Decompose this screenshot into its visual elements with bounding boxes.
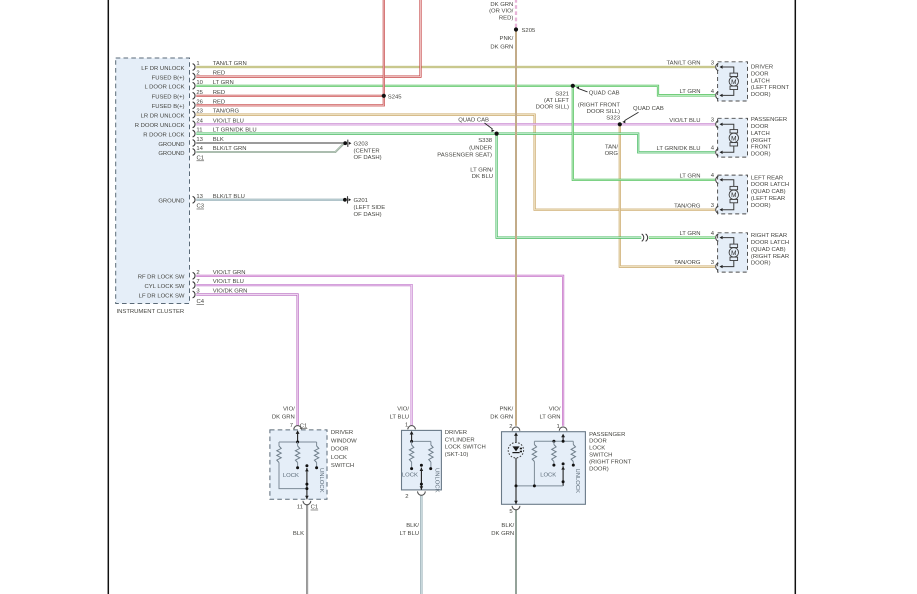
- switch3 resistor left: [532, 441, 536, 486]
- svg-text:DOOR LATCH: DOOR LATCH: [751, 182, 789, 188]
- svg-text:C1: C1: [311, 505, 319, 511]
- cluster pin 24 (R DOOR UNLOCK): [135, 118, 244, 129]
- wire TAN/ORG pin23 to left rear door latch pin3: [196, 115, 715, 210]
- switch3 internal circuit: [534, 434, 573, 443]
- label LT GRN/DK BLU vertical wire: [470, 167, 493, 179]
- switch1 pin 11 C1 bottom connector: [297, 501, 318, 511]
- svg-text:G203: G203: [354, 141, 369, 147]
- svg-text:OF DASH): OF DASH): [354, 212, 382, 218]
- svg-text:S338: S338: [478, 138, 492, 144]
- splice S245: [382, 94, 403, 101]
- svg-text:7: 7: [290, 423, 293, 429]
- cluster pin 10 (L DOOR LOCK): [144, 80, 233, 91]
- label BLK/DK GRN below switch3: [491, 523, 514, 537]
- svg-text:LR DR UNLOCK: LR DR UNLOCK: [141, 113, 185, 119]
- svg-text:SWITCH: SWITCH: [589, 453, 612, 459]
- svg-text:GROUND: GROUND: [158, 142, 184, 148]
- label BLK/LT BLU below switch2: [400, 523, 420, 537]
- svg-text:(OR VIO/: (OR VIO/: [489, 9, 514, 15]
- wire LT GRN splice S338 to inline connector: [497, 134, 642, 238]
- splice S323 (RIGHT FRONT DOOR SILL): [578, 102, 622, 126]
- svg-text:VIO/: VIO/: [397, 406, 409, 412]
- motor 3 name label: [751, 175, 789, 209]
- svg-text:11: 11: [297, 504, 303, 510]
- wire TAN/LT GRN pin1 to driver door latch pin3: [196, 66, 715, 68]
- svg-text:DOOR): DOOR): [751, 92, 771, 98]
- svg-text:(CENTER: (CENTER: [354, 148, 380, 154]
- svg-text:LATCH: LATCH: [751, 131, 770, 137]
- switch1 pin 7 C1 top connector: [290, 423, 308, 430]
- wire VIO/LT BLU pin7 C4 to driver cylinder lock switch pin1: [196, 285, 411, 426]
- wire RED pin25 to splice S245: [196, 95, 383, 97]
- svg-text:LT BLU: LT BLU: [400, 531, 419, 537]
- switch2 name label: [445, 430, 486, 458]
- svg-text:GROUND: GROUND: [158, 151, 184, 157]
- svg-text:UNLOCK: UNLOCK: [433, 468, 439, 493]
- svg-text:(RIGHT FRONT: (RIGHT FRONT: [589, 459, 632, 465]
- svg-text:LOCK SWITCH: LOCK SWITCH: [445, 445, 486, 451]
- splice S321 (AT LEFT DOOR SILL): [536, 84, 575, 111]
- motor 1 pin 3: [666, 60, 722, 70]
- svg-text:UNLOCK: UNLOCK: [318, 468, 324, 493]
- motor 1 pin 4: [679, 89, 722, 99]
- cluster pin 3 (LF DR LOCK SW): [139, 289, 248, 300]
- svg-text:C1: C1: [300, 423, 308, 429]
- cluster pin 13 (GROUND): [158, 194, 245, 205]
- inline connector on LT GRN wire: [642, 234, 648, 241]
- switch1 name label: [331, 430, 357, 469]
- motor 4 symbol: [722, 238, 739, 267]
- label QUAD CAB at S323: [622, 106, 664, 123]
- ground G201 (LEFT SIDE OF DASH): [343, 196, 385, 218]
- switch1 resistor left: [277, 442, 307, 489]
- cluster pin 23 (LR DR UNLOCK): [141, 109, 240, 120]
- switch3 bottom rail: [514, 484, 563, 504]
- svg-text:PNK/: PNK/: [500, 36, 514, 42]
- svg-text:DOOR): DOOR): [589, 466, 609, 472]
- svg-text:DK GRN: DK GRN: [490, 415, 513, 421]
- svg-text:DOOR: DOOR: [751, 71, 769, 77]
- svg-text:DOOR SILL): DOOR SILL): [536, 104, 569, 110]
- wire PNK/DK GRN splice S205 to passenger door lock switch pin2: [515, 30, 517, 426]
- svg-text:VIO/: VIO/: [283, 406, 295, 412]
- motor 2 symbol: [722, 124, 739, 152]
- label PNK/DK GRN: [490, 36, 513, 51]
- svg-text:DOOR): DOOR): [751, 261, 771, 267]
- svg-text:(RIGHT FRONT: (RIGHT FRONT: [578, 102, 621, 108]
- switch3 resistor right: [571, 441, 575, 466]
- svg-text:TAN/: TAN/: [605, 145, 618, 151]
- svg-text:(QUAD CAB): (QUAD CAB): [751, 247, 786, 253]
- passenger door lock switch box: [502, 432, 586, 505]
- cluster pin 7 (CYL LOCK SW): [144, 279, 243, 290]
- cluster pin 2 (RF DR LOCK SW): [138, 270, 246, 281]
- svg-text:1: 1: [405, 423, 408, 429]
- switch2 wiper contact: [420, 464, 424, 490]
- svg-text:(QUAD CAB): (QUAD CAB): [751, 189, 786, 195]
- svg-text:OF DASH): OF DASH): [354, 155, 382, 161]
- wire TAN/ORG splice S323 to right rear door latch pin3: [620, 124, 715, 266]
- svg-text:S321: S321: [555, 91, 569, 97]
- svg-text:RIGHT REAR: RIGHT REAR: [751, 233, 787, 239]
- svg-text:S323: S323: [606, 115, 620, 121]
- svg-text:C1: C1: [197, 156, 205, 162]
- label DK GRN (OR VIO/RED): [489, 2, 514, 21]
- wire LT GRN inline connector to right rear door latch pin4: [649, 237, 715, 239]
- svg-text:M: M: [731, 250, 736, 257]
- splice S338 (UNDER PASSENGER SEAT): [437, 132, 498, 159]
- motor 1 name label: [751, 65, 790, 99]
- label QUAD CAB at S338: [458, 118, 494, 133]
- svg-text:DOOR SILL): DOOR SILL): [587, 109, 620, 115]
- wire RED pin2 up to top: [196, 0, 420, 77]
- svg-text:LOCK: LOCK: [331, 455, 347, 461]
- switch2 pin 2 bottom connector: [405, 491, 425, 500]
- svg-text:DRIVER: DRIVER: [751, 65, 773, 71]
- ground G203 (CENTER OF DASH): [343, 140, 381, 162]
- svg-text:LT GRN: LT GRN: [679, 89, 700, 95]
- svg-text:LOCK: LOCK: [540, 473, 556, 479]
- svg-text:SWITCH: SWITCH: [331, 463, 354, 469]
- svg-text:DK GRN: DK GRN: [490, 45, 513, 51]
- svg-text:RED): RED): [499, 15, 513, 21]
- driver cylinder lock switch box: [402, 430, 442, 490]
- svg-text:QUAD CAB: QUAD CAB: [589, 91, 620, 97]
- switch3 name label: [589, 432, 632, 473]
- switch1 wiper contact: [305, 464, 309, 499]
- svg-text:DOOR: DOOR: [589, 439, 607, 445]
- svg-text:BLK/: BLK/: [406, 523, 419, 529]
- svg-text:FUSED B(+): FUSED B(+): [152, 95, 185, 101]
- motor 2 pin 4: [657, 146, 723, 156]
- motor 4 pin 4: [679, 231, 722, 241]
- wire LT GRN splice S321 to left rear door latch pin4: [573, 86, 715, 180]
- switch3 pin 1 top connector: [557, 424, 567, 431]
- label VIO/LT BLU above switch2: [390, 406, 410, 420]
- wire BLK below driver window door lock switch: [306, 505, 308, 594]
- svg-text:VIO/: VIO/: [549, 406, 561, 412]
- switch1 resistor middle: [295, 441, 299, 470]
- svg-text:(UNDER: (UNDER: [469, 146, 492, 152]
- svg-text:LT GRN/DK BLU: LT GRN/DK BLU: [657, 146, 701, 152]
- svg-text:LF DR LOCK SW: LF DR LOCK SW: [139, 293, 185, 299]
- driver window door lock switch box: [270, 430, 327, 499]
- svg-text:(LEFT REAR: (LEFT REAR: [751, 196, 785, 202]
- svg-text:PASSENGER: PASSENGER: [589, 432, 625, 438]
- motor 4 pin 3: [674, 260, 723, 270]
- svg-text:R DOOR LOCK: R DOOR LOCK: [143, 132, 184, 138]
- svg-text:C4: C4: [197, 299, 205, 305]
- svg-text:TAN/ORG: TAN/ORG: [674, 260, 701, 266]
- wire VIO/LT GRN pin2 C4 to passenger door lock switch pin1: [196, 276, 563, 426]
- label VIO/LT GRN above switch3: [539, 406, 560, 420]
- svg-text:M: M: [731, 135, 736, 142]
- wire LT GRN/DK BLU pin11 to passenger door latch pin4: [196, 134, 715, 153]
- wire BLK/LT BLU pin13 C3 to ground G201: [196, 199, 343, 201]
- svg-text:DOOR): DOOR): [751, 152, 771, 158]
- wire BLK/LT BLU below driver cylinder lock switch: [420, 495, 422, 594]
- switch3 illumination diode: [508, 432, 523, 486]
- svg-text:L DOOR LOCK: L DOOR LOCK: [144, 85, 184, 91]
- svg-text:S205: S205: [522, 28, 536, 34]
- svg-text:QUAD CAB: QUAD CAB: [633, 106, 664, 112]
- svg-text:PASSENGER SEAT): PASSENGER SEAT): [437, 153, 492, 159]
- door latch motor box 2: [718, 118, 748, 157]
- svg-text:FUSED B(+): FUSED B(+): [152, 104, 185, 110]
- svg-text:DK GRN: DK GRN: [491, 531, 514, 537]
- svg-text:VIO/LT BLU: VIO/LT BLU: [669, 118, 700, 124]
- switch2 pin 1 top connector: [405, 423, 415, 430]
- svg-text:PASSENGER: PASSENGER: [751, 117, 787, 123]
- cluster pin 25 (FUSED B(+)): [152, 90, 226, 101]
- wire BLK pin13 to ground G203: [196, 142, 343, 144]
- svg-text:BLK: BLK: [293, 531, 304, 537]
- svg-text:RF DR LOCK SW: RF DR LOCK SW: [138, 275, 185, 281]
- wire BLK/DK GRN below passenger door lock switch: [515, 509, 517, 594]
- motor 1 symbol: [722, 67, 739, 95]
- wire BLK/LT GRN pin14 to ground G203: [196, 144, 343, 152]
- label VIO/DK GRN above switch1: [272, 406, 295, 420]
- svg-text:TAN/LT GRN: TAN/LT GRN: [666, 61, 700, 67]
- instrument cluster box: [116, 58, 190, 304]
- motor 3 pin 4: [679, 173, 722, 183]
- motor 4 name label: [751, 233, 789, 267]
- wire RED splice S245 up to top: [383, 0, 385, 96]
- svg-text:CYLINDER: CYLINDER: [445, 437, 475, 443]
- svg-text:LT GRN/: LT GRN/: [470, 167, 493, 173]
- svg-text:LOCK: LOCK: [402, 473, 418, 479]
- switch1 internal circuit: [279, 430, 317, 442]
- svg-text:TAN/ORG: TAN/ORG: [674, 203, 701, 209]
- svg-text:DOOR: DOOR: [331, 447, 349, 453]
- right page border line: [794, 0, 796, 594]
- svg-text:DOOR LATCH: DOOR LATCH: [751, 240, 789, 246]
- svg-text:2: 2: [405, 494, 408, 500]
- svg-text:LF DR UNLOCK: LF DR UNLOCK: [141, 66, 184, 72]
- motor 2 pin 3: [669, 118, 722, 128]
- svg-text:DK BLU: DK BLU: [472, 174, 493, 180]
- left page border line: [107, 0, 109, 594]
- svg-text:R DOOR UNLOCK: R DOOR UNLOCK: [135, 123, 185, 129]
- svg-text:(SKT-10): (SKT-10): [445, 452, 469, 458]
- svg-text:G201: G201: [354, 198, 368, 204]
- svg-text:FUSED B(+): FUSED B(+): [152, 75, 185, 81]
- label TAN/ORG vertical wire: [605, 145, 619, 157]
- svg-text:LOCK: LOCK: [283, 473, 299, 479]
- wire DK GRN (OR VIO/RED) dashed from top to splice S205: [515, 0, 517, 30]
- wire VIO/DK GRN pin3 C4 to driver window door lock switch pin7: [196, 295, 297, 426]
- switch3 pin 2 top connector: [509, 424, 520, 431]
- svg-text:QUAD CAB: QUAD CAB: [458, 118, 489, 124]
- svg-text:(RIGHT REAR: (RIGHT REAR: [751, 254, 789, 260]
- svg-text:M: M: [731, 192, 736, 199]
- door latch motor box 3: [718, 175, 748, 214]
- svg-text:1: 1: [557, 424, 560, 430]
- label PNK/DK GRN above switch3: [490, 406, 513, 420]
- cluster pin 13 (GROUND): [158, 137, 224, 148]
- door latch motor box 1: [718, 62, 748, 101]
- splice S205: [514, 27, 536, 34]
- svg-text:LT GRN: LT GRN: [679, 173, 700, 179]
- svg-text:DOOR: DOOR: [751, 124, 769, 130]
- motor 3 pin 3: [674, 203, 723, 213]
- svg-text:(LEFT SIDE: (LEFT SIDE: [354, 205, 386, 211]
- svg-text:C3: C3: [197, 204, 205, 210]
- svg-text:CYL LOCK SW: CYL LOCK SW: [144, 284, 184, 290]
- svg-text:M: M: [731, 79, 736, 86]
- svg-text:(AT LEFT: (AT LEFT: [544, 98, 569, 104]
- svg-text:UNLOCK: UNLOCK: [574, 469, 580, 494]
- switch3 wiper contact: [561, 462, 565, 486]
- switch3 resistor middle: [552, 441, 556, 466]
- wire VIO/LT BLU pin24 to passenger door latch pin3: [196, 123, 715, 125]
- svg-text:PNK/: PNK/: [499, 406, 513, 412]
- switch1 resistor right: [314, 442, 318, 469]
- svg-text:S245: S245: [388, 94, 402, 100]
- motor 2 name label: [751, 117, 787, 158]
- svg-text:DK GRN: DK GRN: [272, 415, 295, 421]
- switch3 pin 5 bottom connector: [509, 506, 520, 515]
- switch2 internal circuit: [410, 431, 431, 443]
- svg-text:LATCH: LATCH: [751, 78, 770, 84]
- svg-text:(LEFT FRONT: (LEFT FRONT: [751, 85, 790, 91]
- svg-text:DK GRN: DK GRN: [490, 2, 513, 8]
- svg-text:WINDOW: WINDOW: [331, 438, 357, 444]
- svg-text:FRONT: FRONT: [751, 145, 772, 151]
- switch2 resistor left: [409, 441, 413, 470]
- svg-text:DOOR): DOOR): [751, 203, 771, 209]
- cluster pin 14 (GROUND): [158, 146, 246, 157]
- svg-text:LT BLU: LT BLU: [390, 415, 409, 421]
- cluster pin 26 (FUSED B(+)): [152, 99, 226, 110]
- svg-text:LOCK: LOCK: [589, 446, 605, 452]
- svg-text:LEFT REAR: LEFT REAR: [751, 175, 783, 181]
- wire LT GRN pin10 to driver door latch pin4: [196, 86, 715, 96]
- svg-text:(RIGHT: (RIGHT: [751, 138, 772, 144]
- svg-text:GROUND: GROUND: [158, 199, 184, 205]
- cluster pin 2 (FUSED B(+)): [152, 71, 226, 82]
- cluster pin 11 (R DOOR LOCK): [143, 128, 256, 139]
- svg-text:DRIVER: DRIVER: [445, 430, 467, 436]
- svg-text:LT GRN: LT GRN: [539, 415, 560, 421]
- svg-text:2: 2: [509, 424, 512, 430]
- cluster pin 1 (LF DR UNLOCK): [141, 61, 246, 72]
- svg-text:DRIVER: DRIVER: [331, 430, 353, 436]
- svg-text:ORG: ORG: [605, 151, 619, 157]
- switch2 resistor right: [429, 441, 433, 470]
- wire RED pin26 to splice S245: [196, 96, 383, 106]
- svg-text:BLK/: BLK/: [501, 523, 514, 529]
- motor 3 symbol: [722, 180, 739, 210]
- label QUAD CAB at S321: [576, 86, 620, 96]
- door latch motor box 4: [718, 233, 748, 272]
- svg-text:INSTRUMENT CLUSTER: INSTRUMENT CLUSTER: [117, 309, 185, 315]
- svg-text:LT GRN: LT GRN: [679, 231, 700, 237]
